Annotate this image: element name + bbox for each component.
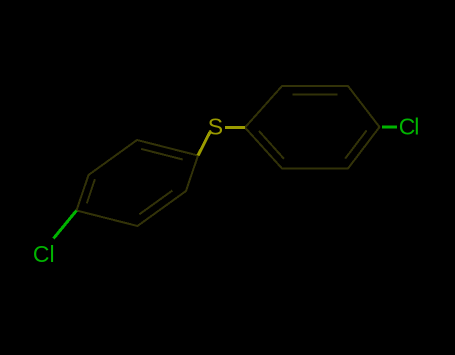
bond left ring to Cl — [54, 211, 77, 239]
inner double-bond lines right ring — [292, 94, 337, 96]
inner double-bond lines left ring — [141, 149, 183, 160]
bond S to left ring — [198, 132, 210, 156]
svg-text:Cl: Cl — [399, 114, 419, 140]
svg-text:S: S — [208, 114, 223, 140]
bond S to right ring — [225, 126, 245, 129]
bond right ring to Cl — [382, 126, 397, 129]
benzene ring right (4-chlorophenyl) — [245, 86, 380, 169]
benzene ring left (chlorophenyl, tilted) — [77, 140, 199, 226]
svg-text:Cl: Cl — [33, 241, 55, 267]
